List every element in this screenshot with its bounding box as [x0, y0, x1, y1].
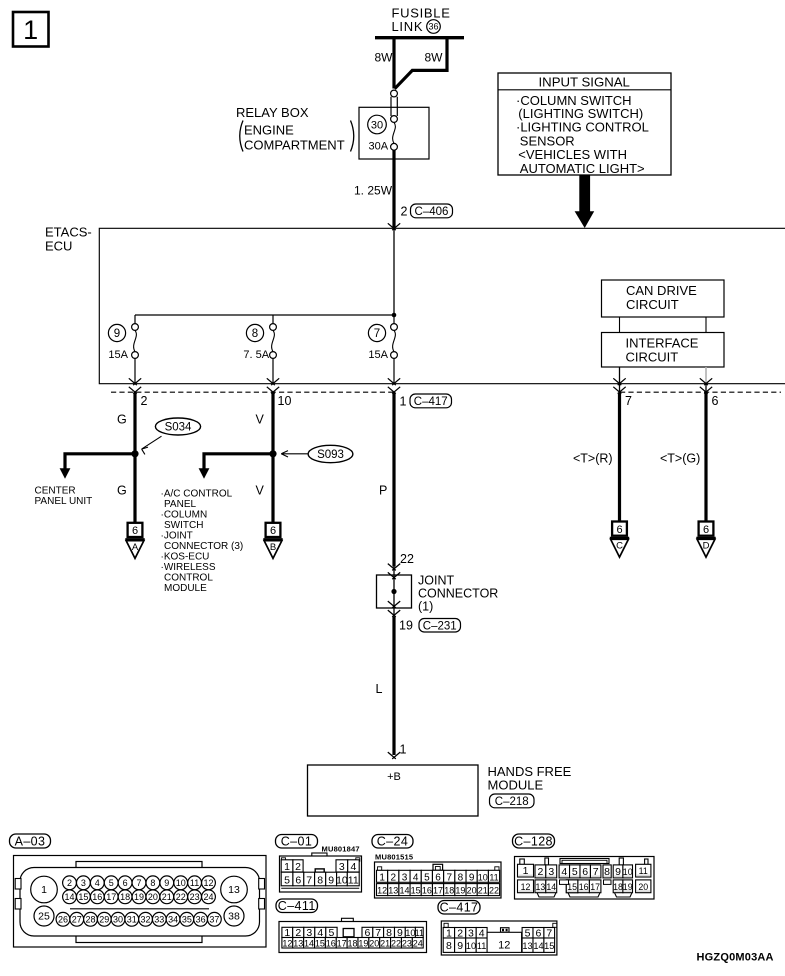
svg-text:4: 4: [351, 861, 357, 873]
wire 8W left: [375, 36, 395, 89]
svg-text:16: 16: [579, 882, 589, 892]
svg-text:C: C: [616, 541, 623, 552]
svg-text:11: 11: [190, 878, 199, 888]
svg-text:PANEL: PANEL: [164, 499, 196, 510]
svg-text:1: 1: [379, 872, 385, 883]
svg-text:33: 33: [154, 914, 164, 924]
svg-text:9: 9: [114, 328, 120, 340]
svg-text:INPUT SIGNAL: INPUT SIGNAL: [539, 74, 630, 89]
svg-text:23: 23: [190, 892, 200, 902]
svg-text:CAN DRIVE: CAN DRIVE: [626, 283, 697, 298]
svg-text:9: 9: [328, 875, 334, 887]
fuse 8 7. 5A: [243, 315, 276, 384]
svg-text:7: 7: [446, 872, 452, 883]
svg-text:V: V: [256, 484, 265, 498]
svg-text:22: 22: [391, 938, 401, 948]
svg-text:3: 3: [548, 866, 554, 878]
svg-text:A–03: A–03: [15, 834, 46, 848]
svg-text:20: 20: [369, 938, 379, 948]
svg-text:·COLUMN: ·COLUMN: [161, 510, 208, 521]
svg-text:6: 6: [132, 525, 138, 537]
interface circuit box: [602, 333, 725, 368]
svg-text:30A: 30A: [369, 141, 389, 153]
connector C-128 label: [513, 834, 555, 848]
svg-text:11: 11: [489, 872, 498, 882]
svg-text:11: 11: [639, 866, 648, 876]
svg-text:1: 1: [284, 861, 290, 873]
svg-text:8: 8: [317, 875, 323, 887]
svg-text:JOINT: JOINT: [418, 574, 454, 588]
svg-text:30: 30: [113, 914, 123, 924]
svg-text:4: 4: [561, 866, 567, 878]
svg-text:12: 12: [203, 878, 213, 888]
wire 1.25W: [354, 150, 394, 227]
wires CAN to interface: [620, 317, 707, 333]
svg-text:4: 4: [413, 872, 419, 883]
svg-text:20: 20: [148, 892, 158, 902]
svg-text:CIRCUIT: CIRCUIT: [626, 297, 679, 312]
wire interface to pin 6 (shield): [700, 367, 712, 394]
connector C-411 pinout: [279, 918, 427, 952]
svg-text:14: 14: [304, 938, 314, 948]
svg-text:1: 1: [400, 743, 407, 757]
svg-text:ECU: ECU: [45, 239, 72, 254]
joint connector 1 box: [377, 564, 412, 617]
svg-text:HGZQ0M03AA: HGZQ0M03AA: [697, 952, 774, 964]
svg-text:4: 4: [95, 878, 100, 888]
connector dashed line left: [111, 391, 394, 393]
svg-text:S093: S093: [317, 449, 344, 461]
svg-text:SENSOR: SENSOR: [520, 133, 575, 148]
svg-text:36: 36: [196, 914, 206, 924]
svg-text:32: 32: [141, 914, 151, 924]
svg-text:1: 1: [23, 15, 38, 45]
branch wire to accessory list: [199, 454, 275, 479]
splice label S093: [281, 445, 353, 462]
svg-text:C–218: C–218: [495, 796, 529, 808]
connector C-218: [490, 794, 535, 808]
svg-text:CIRCUIT: CIRCUIT: [626, 349, 679, 364]
svg-text:14: 14: [546, 882, 556, 892]
svg-text:8: 8: [252, 328, 258, 340]
svg-text:14: 14: [533, 941, 543, 951]
svg-text:<T>(G): <T>(G): [660, 452, 700, 466]
connector C-417 pin 1: [400, 394, 452, 409]
svg-text:7: 7: [306, 875, 312, 887]
fusible link 36 label: [392, 6, 451, 35]
svg-text:7. 5A: 7. 5A: [243, 349, 269, 361]
svg-text:10: 10: [623, 867, 633, 877]
svg-text:CONNECTOR (3): CONNECTOR (3): [164, 541, 243, 552]
svg-text:C–406: C–406: [415, 206, 449, 218]
svg-text:·JOINT: ·JOINT: [161, 531, 193, 542]
wire T R: [573, 393, 620, 523]
svg-text:13: 13: [536, 882, 546, 892]
fusible link bus bar: [375, 36, 464, 39]
svg-text:8W: 8W: [425, 51, 444, 65]
svg-text:<T>(R): <T>(R): [573, 452, 613, 466]
svg-text:11: 11: [477, 941, 487, 951]
svg-text:CONNECTOR: CONNECTOR: [418, 587, 498, 601]
wire L: [376, 617, 407, 759]
svg-text:AUTOMATIC LIGHT>: AUTOMATIC LIGHT>: [520, 161, 645, 176]
page number box 1: [13, 12, 49, 47]
svg-text:(1): (1): [418, 600, 433, 614]
svg-text:LINK: LINK: [392, 19, 424, 34]
terminal 6 D: [696, 522, 715, 558]
wire interface to pin 7: [613, 367, 625, 394]
svg-text:RELAY BOX: RELAY BOX: [236, 105, 309, 120]
svg-text:9: 9: [615, 866, 621, 878]
svg-text:13: 13: [293, 938, 303, 948]
svg-text:5: 5: [284, 875, 290, 887]
svg-text:20: 20: [467, 886, 477, 896]
svg-text:6: 6: [582, 866, 588, 878]
svg-text:·KOS-ECU: ·KOS-ECU: [161, 552, 210, 563]
relay box outline: [359, 107, 429, 159]
svg-text:17: 17: [433, 886, 443, 896]
svg-text:11: 11: [348, 875, 359, 887]
connector C-01 label: [276, 835, 360, 854]
fuse 9 15A: [108, 315, 138, 384]
svg-text:INTERFACE: INTERFACE: [626, 335, 699, 350]
svg-text:2: 2: [67, 878, 72, 888]
svg-text:23: 23: [402, 938, 412, 948]
wire T G: [660, 393, 706, 523]
connector dashed line right: [620, 391, 781, 393]
svg-text:18: 18: [348, 938, 358, 948]
svg-text:21: 21: [478, 886, 488, 896]
connector A-03 pinout: [14, 856, 267, 948]
svg-text:1: 1: [41, 884, 47, 896]
svg-text:26: 26: [58, 914, 68, 924]
drawing code HGZQ0M03AA: [697, 952, 774, 964]
svg-text:1: 1: [400, 395, 407, 409]
svg-text:14: 14: [399, 886, 409, 896]
wire G pin2: [117, 393, 135, 524]
svg-text:SWITCH: SWITCH: [164, 520, 203, 531]
svg-text:15: 15: [78, 892, 88, 902]
svg-text:19: 19: [455, 886, 465, 896]
fuse 30 30A: [368, 115, 398, 152]
svg-text:5: 5: [424, 872, 430, 883]
svg-text:13: 13: [522, 941, 532, 951]
svg-text:7: 7: [136, 878, 141, 888]
connector C-128 pinout: [515, 857, 655, 900]
wire P: [379, 393, 414, 567]
svg-text:17: 17: [106, 892, 116, 902]
svg-text:6: 6: [435, 872, 441, 883]
svg-text:L: L: [376, 682, 383, 696]
svg-text:10: 10: [478, 872, 488, 882]
joint connector label: [418, 574, 498, 614]
svg-text:CENTER: CENTER: [35, 486, 76, 497]
branch wire to center panel unit: [60, 454, 137, 479]
svg-text:8: 8: [150, 878, 155, 888]
svg-text:C–411: C–411: [278, 899, 316, 913]
svg-text:2: 2: [295, 861, 301, 873]
internal bus wire: [135, 313, 396, 318]
terminal 6 B: [263, 523, 282, 559]
svg-text:21: 21: [162, 892, 172, 902]
svg-text:8: 8: [604, 866, 610, 878]
svg-text:D: D: [703, 541, 710, 552]
svg-text:20: 20: [638, 882, 648, 892]
svg-text:V: V: [256, 413, 265, 427]
svg-text:7: 7: [374, 328, 380, 340]
svg-text:11: 11: [415, 928, 424, 938]
relay box label: [236, 105, 354, 153]
svg-text:15A: 15A: [108, 349, 128, 361]
svg-text:MU801847: MU801847: [322, 845, 360, 854]
svg-text:B: B: [270, 542, 276, 553]
ETACS-ECU box outline: [99, 228, 785, 383]
svg-text:C–231: C–231: [423, 620, 457, 632]
svg-text:2: 2: [141, 394, 148, 408]
svg-text:3: 3: [339, 861, 345, 873]
svg-text:16: 16: [326, 938, 336, 948]
svg-text:27: 27: [72, 914, 82, 924]
svg-text:10: 10: [466, 941, 476, 951]
svg-text:14: 14: [64, 892, 74, 902]
svg-text:MODULE: MODULE: [164, 583, 207, 594]
svg-text:3: 3: [402, 872, 408, 883]
splice label S034: [142, 418, 201, 454]
svg-text:G: G: [117, 484, 127, 498]
svg-text:A: A: [132, 542, 139, 553]
svg-text:5: 5: [572, 866, 578, 878]
svg-text:8: 8: [458, 872, 464, 883]
svg-text:P: P: [379, 484, 387, 498]
svg-text:17: 17: [337, 938, 347, 948]
svg-text:COMPARTMENT: COMPARTMENT: [244, 138, 345, 153]
connector C-411 label: [276, 899, 318, 913]
svg-text:30: 30: [371, 119, 383, 131]
svg-text:15: 15: [315, 938, 325, 948]
svg-text:PANEL UNIT: PANEL UNIT: [35, 496, 93, 507]
svg-text:C–01: C–01: [281, 835, 312, 849]
svg-text:MU801515: MU801515: [375, 852, 413, 861]
svg-text:12: 12: [282, 938, 292, 948]
svg-text:MODULE: MODULE: [488, 778, 544, 793]
svg-text:12: 12: [377, 886, 387, 896]
svg-text:37: 37: [209, 914, 219, 924]
svg-text:G: G: [117, 413, 127, 427]
svg-text:12: 12: [521, 882, 531, 892]
input signal arrow: [575, 175, 595, 228]
svg-text:8W: 8W: [375, 51, 394, 65]
svg-text:24: 24: [203, 892, 213, 902]
svg-text:9: 9: [469, 872, 475, 883]
svg-text:S034: S034: [165, 422, 192, 434]
center panel unit label: [35, 486, 93, 508]
svg-text:22: 22: [489, 886, 499, 896]
connector C-24 label: [372, 835, 413, 862]
svg-text:16: 16: [422, 886, 432, 896]
svg-text:10: 10: [336, 875, 348, 887]
svg-text:6: 6: [123, 878, 128, 888]
svg-text:6: 6: [712, 394, 719, 408]
svg-text:18: 18: [444, 886, 454, 896]
svg-text:7: 7: [625, 394, 632, 408]
connector C-406 pin 2: [401, 204, 453, 219]
junction S034: [131, 450, 138, 457]
svg-text:16: 16: [92, 892, 102, 902]
node C-406 crossing: [388, 223, 400, 230]
svg-text:CONTROL: CONTROL: [164, 573, 213, 584]
connector C-24 pinout: [375, 862, 502, 898]
svg-text:10: 10: [176, 878, 186, 888]
svg-text:2: 2: [537, 866, 543, 878]
svg-text:2: 2: [401, 205, 408, 219]
svg-text:15: 15: [544, 941, 554, 951]
svg-text:ENGINE: ENGINE: [244, 123, 294, 138]
junction S093: [269, 450, 276, 457]
svg-text:31: 31: [127, 914, 137, 924]
svg-text:25: 25: [38, 911, 50, 923]
svg-text:13: 13: [388, 886, 398, 896]
svg-text:19: 19: [134, 892, 144, 902]
wire inside ECU from pin 2: [393, 229, 395, 315]
hands free module label: [488, 764, 572, 793]
svg-text:35: 35: [182, 914, 192, 924]
fuse 7 15A: [368, 315, 397, 384]
svg-text:5: 5: [109, 878, 114, 888]
terminal 6 A: [125, 523, 144, 559]
connector C-417 pinout: [441, 921, 557, 955]
svg-text:C–417: C–417: [414, 396, 448, 408]
svg-text:21: 21: [380, 938, 390, 948]
connector C-01 pinout: [280, 853, 362, 892]
svg-text:9: 9: [164, 878, 169, 888]
svg-text:9: 9: [457, 940, 463, 952]
svg-text:·A/C CONTROL: ·A/C CONTROL: [161, 489, 233, 500]
svg-text:15A: 15A: [368, 349, 388, 361]
input signal note box: [498, 73, 671, 176]
svg-text:7: 7: [593, 866, 599, 878]
connector junction above relay box: [391, 90, 398, 116]
ETACS-ECU label: [45, 225, 92, 254]
svg-text:18: 18: [120, 892, 130, 902]
connector A-03 label: [10, 834, 51, 848]
svg-text:3: 3: [81, 878, 86, 888]
svg-text:1. 25W: 1. 25W: [354, 184, 393, 198]
svg-text:C–128: C–128: [514, 834, 553, 848]
svg-text:34: 34: [168, 914, 178, 924]
hands free module box: [308, 765, 479, 816]
svg-text:6: 6: [295, 875, 301, 887]
wire V pin10: [256, 393, 274, 524]
svg-text:18: 18: [613, 882, 623, 892]
crossing arrows at ECU bottom: [129, 378, 400, 393]
svg-text:13: 13: [228, 884, 240, 896]
svg-text:·LIGHTING CONTROL: ·LIGHTING CONTROL: [516, 120, 649, 135]
svg-text:19: 19: [399, 619, 413, 633]
svg-text:2: 2: [391, 872, 397, 883]
svg-text:6: 6: [616, 524, 622, 536]
svg-text:19: 19: [358, 938, 368, 948]
svg-text:28: 28: [86, 914, 96, 924]
svg-text:8: 8: [446, 940, 452, 952]
svg-text:C–417: C–417: [440, 901, 479, 915]
svg-text:+B: +B: [387, 771, 401, 783]
accessory list label: [161, 489, 244, 595]
CAN drive circuit box: [602, 280, 725, 317]
connector C-417 label: [438, 901, 480, 915]
svg-text:·WIRELESS: ·WIRELESS: [161, 562, 216, 573]
svg-text:1: 1: [523, 865, 529, 877]
svg-text:29: 29: [99, 914, 109, 924]
svg-text:38: 38: [228, 911, 240, 923]
svg-text:22: 22: [176, 892, 186, 902]
svg-text:C–24: C–24: [377, 835, 408, 849]
svg-text:ETACS-: ETACS-: [45, 225, 92, 240]
svg-text:19: 19: [623, 882, 633, 892]
svg-text:15: 15: [411, 886, 421, 896]
svg-text:12: 12: [498, 940, 510, 952]
svg-text:6: 6: [270, 525, 276, 537]
connector C-231 pin 19: [399, 619, 461, 633]
svg-text:36: 36: [428, 22, 438, 32]
terminal 6 C: [610, 522, 629, 558]
svg-text:10: 10: [278, 394, 292, 408]
svg-text:24: 24: [413, 938, 423, 948]
wire 8W right: [395, 36, 449, 89]
svg-text:22: 22: [400, 552, 414, 566]
svg-text:6: 6: [703, 524, 709, 536]
svg-text:17: 17: [590, 882, 600, 892]
pin labels row: [141, 394, 719, 408]
